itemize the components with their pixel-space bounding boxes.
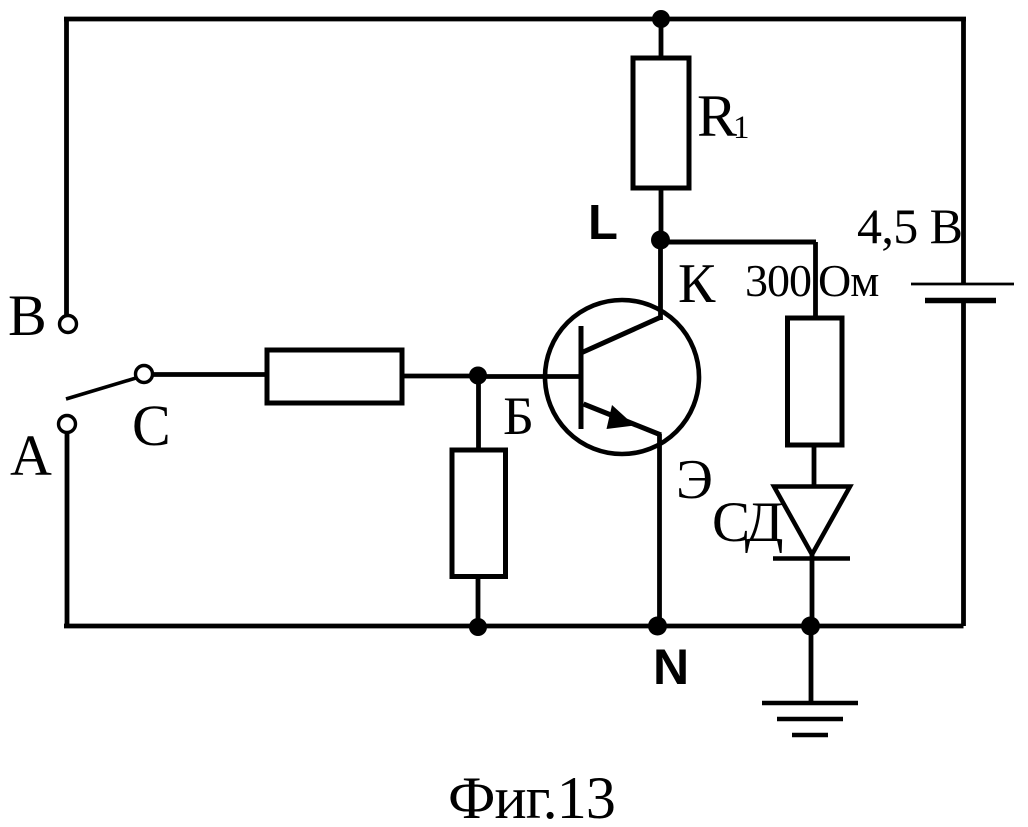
svg-text:К: К	[678, 253, 716, 315]
svg-text:А: А	[10, 423, 52, 488]
svg-text:L: L	[588, 196, 618, 250]
svg-text:N: N	[653, 639, 689, 695]
svg-text:В: В	[8, 283, 47, 348]
svg-text:4,5 В: 4,5 В	[857, 198, 962, 254]
svg-text:R: R	[697, 83, 737, 149]
svg-text:300: 300	[745, 255, 811, 306]
svg-text:Ом: Ом	[818, 255, 879, 306]
svg-text:Б: Б	[503, 386, 534, 446]
svg-text:С: С	[132, 393, 171, 458]
svg-text:Фиг.13: Фиг.13	[448, 765, 615, 827]
svg-text:1: 1	[733, 110, 750, 146]
svg-text:СД: СД	[712, 491, 783, 554]
svg-text:Э: Э	[676, 449, 713, 511]
